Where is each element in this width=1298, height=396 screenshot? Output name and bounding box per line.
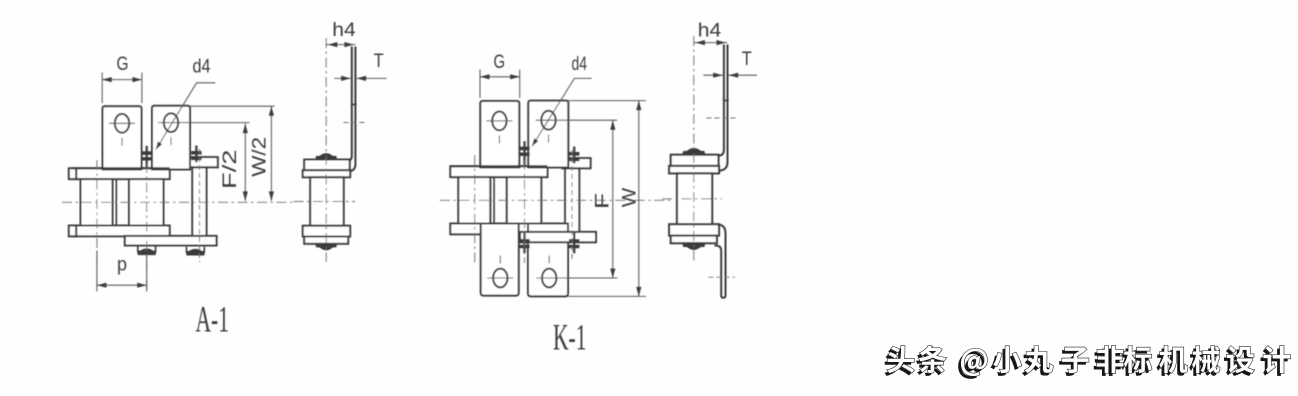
dimension F/2 line [244, 124, 246, 201]
adjacent pin-link plate (edge view) [192, 167, 206, 238]
svg-text:T: T [742, 49, 752, 70]
dimension T (K-1 side) [703, 74, 722, 76]
bent lug tab 2 (A-1) [152, 106, 190, 170]
hole centerline dash (side view A-1) [344, 122, 365, 124]
pin centerline 2 (vertical) [146, 163, 148, 291]
horizontal centerline (side K-1) [662, 198, 722, 200]
bushing edge line [493, 177, 495, 223]
bent lug tab 3 lower (K-1) [481, 224, 519, 296]
hole tab4 [542, 269, 556, 288]
dimension T (A-1 side) [334, 77, 350, 79]
horizontal centerline A-1 [62, 201, 296, 203]
dimension G (K-1): extension lines [479, 70, 481, 99]
horizontal centerline K-1 [440, 199, 674, 201]
roller 1 [458, 177, 490, 223]
lug bend tick [351, 104, 357, 106]
roller 1 [81, 179, 113, 225]
pin head bottom [316, 244, 336, 250]
hole centerline dash lower (side K-1) [709, 276, 735, 278]
vertical centerline (side K-1) [693, 36, 695, 262]
bent lug plate lower (side K-1) [715, 225, 726, 298]
dimension G (A-1): extension lines [101, 73, 103, 104]
attachment hole d4 [492, 112, 506, 131]
svg-text:W: W [619, 188, 640, 208]
hole tab3 [493, 269, 507, 288]
svg-text:G: G [494, 52, 506, 73]
roller 2 [129, 179, 164, 225]
attachment hole d4 [164, 113, 178, 132]
roller 2 [507, 177, 542, 223]
dimension G (K-1): dimension line [480, 76, 520, 78]
dimension W (K-1): dimension line [638, 101, 640, 297]
leader line d4 (A-1) [156, 83, 215, 150]
dimension p: extension lines [96, 251, 98, 292]
chain left end step (top bar) [69, 168, 76, 179]
svg-text:d4: d4 [572, 54, 588, 75]
link plate (side view, lower inner) [669, 224, 719, 235]
pin centerline 2 K-1 (vertical) [524, 160, 526, 263]
dimension F (K-1) [612, 120, 614, 278]
svg-text:h4: h4 [698, 20, 722, 41]
pin centerline 1 K-1 [474, 155, 476, 265]
svg-text:h4: h4 [332, 20, 356, 41]
svg-text:A-1: A-1 [196, 299, 229, 340]
dimension W/2: dimension line [270, 106, 272, 201]
pin head top [683, 149, 704, 155]
dimension W (K-1): extension lines [568, 100, 646, 102]
link plate (side view, lower) [671, 236, 717, 244]
pin centerline 1 (vertical) [96, 160, 98, 291]
cotter pin bottom 2 K-1 [569, 233, 579, 254]
svg-text:F/2: F/2 [220, 150, 241, 190]
chain top bar top edge K-1 (redrawn) [450, 165, 547, 167]
chain top bar top edge (redrawn) [73, 167, 170, 169]
connecting link plate lower K-1 (edge view) [520, 232, 596, 242]
cotter pin top [191, 146, 201, 163]
link plate (side view, upper inner) [303, 170, 351, 177]
adjacent pin-link plate (edge view) [565, 168, 579, 239]
chain link plate top edge [73, 168, 170, 179]
attachment hole d4 [541, 111, 555, 130]
svg-text:K-1: K-1 [553, 317, 586, 358]
bushing edge line [115, 179, 117, 225]
connecting link plate (lower, edge view) [125, 236, 217, 246]
chain link plate top edge [450, 166, 547, 177]
svg-text:W/2: W/2 [250, 137, 271, 177]
link plate (side view, lower) [304, 237, 348, 244]
dimension G (A-1): dimension line [102, 79, 142, 81]
svg-text:G: G [117, 54, 129, 75]
bent lug tab 2 upper (K-1) [528, 101, 568, 168]
link plate (side view, upper) [671, 155, 719, 166]
link plate (side view, upper) [304, 160, 350, 171]
chain link plate bottom edge [73, 226, 170, 237]
pin head top [316, 154, 336, 160]
chain link plate bottom edge [450, 224, 547, 235]
svg-text:T: T [374, 51, 384, 72]
cotter pin between tabs [142, 146, 152, 169]
horizontal centerline (side view A-1) [294, 201, 356, 203]
watermark face layer [887, 346, 1290, 376]
leader line d4 (K-1) [532, 78, 592, 146]
chain left end step (bottom bar) [69, 226, 76, 237]
bent lug plate upper (side K-1) [716, 45, 724, 157]
dimension h4 (K-1 side) [694, 42, 728, 44]
hole centerline dash upper (side K-1) [707, 117, 737, 119]
roller (side view) [310, 177, 344, 225]
attachment hole d4 [115, 114, 129, 133]
lug bend tick upper [723, 100, 729, 102]
bent lug tab 1 (A-1) [103, 106, 142, 169]
cotter pin bottom 1 K-1 [519, 233, 529, 254]
dimension W/2: extension line [190, 105, 274, 107]
cotter pin top [569, 147, 579, 164]
bent lug tab 4 lower (K-1) [528, 224, 568, 297]
cotter pin between upper tabs K-1 [519, 141, 529, 166]
pin head below 2 [187, 247, 205, 255]
pin head below 1 [138, 246, 156, 254]
adjacent plate centerline [199, 149, 201, 262]
roller (side view) [677, 173, 712, 224]
adjacent plate centerline K-1 [571, 150, 573, 260]
svg-text:F: F [593, 193, 614, 209]
vertical centerline (side view A-1) [325, 38, 327, 262]
pin-link plate top bar [562, 158, 590, 168]
svg-text:d4: d4 [193, 57, 211, 78]
pin head bottom [683, 243, 704, 249]
dimension p: dimension line [97, 284, 147, 286]
link plate (side view, lower inner) [303, 226, 351, 237]
dimension h4 (A-1 side): dimension line [326, 44, 355, 46]
link plate (side view, upper inner) [669, 166, 719, 173]
watermark shadow layer [884, 348, 1287, 378]
bent lug tab 1 upper (K-1) [480, 101, 519, 168]
pin-link plate top bar [190, 157, 218, 167]
svg-text:p: p [117, 255, 127, 276]
bent lug plate (side view A-1) [304, 47, 352, 161]
